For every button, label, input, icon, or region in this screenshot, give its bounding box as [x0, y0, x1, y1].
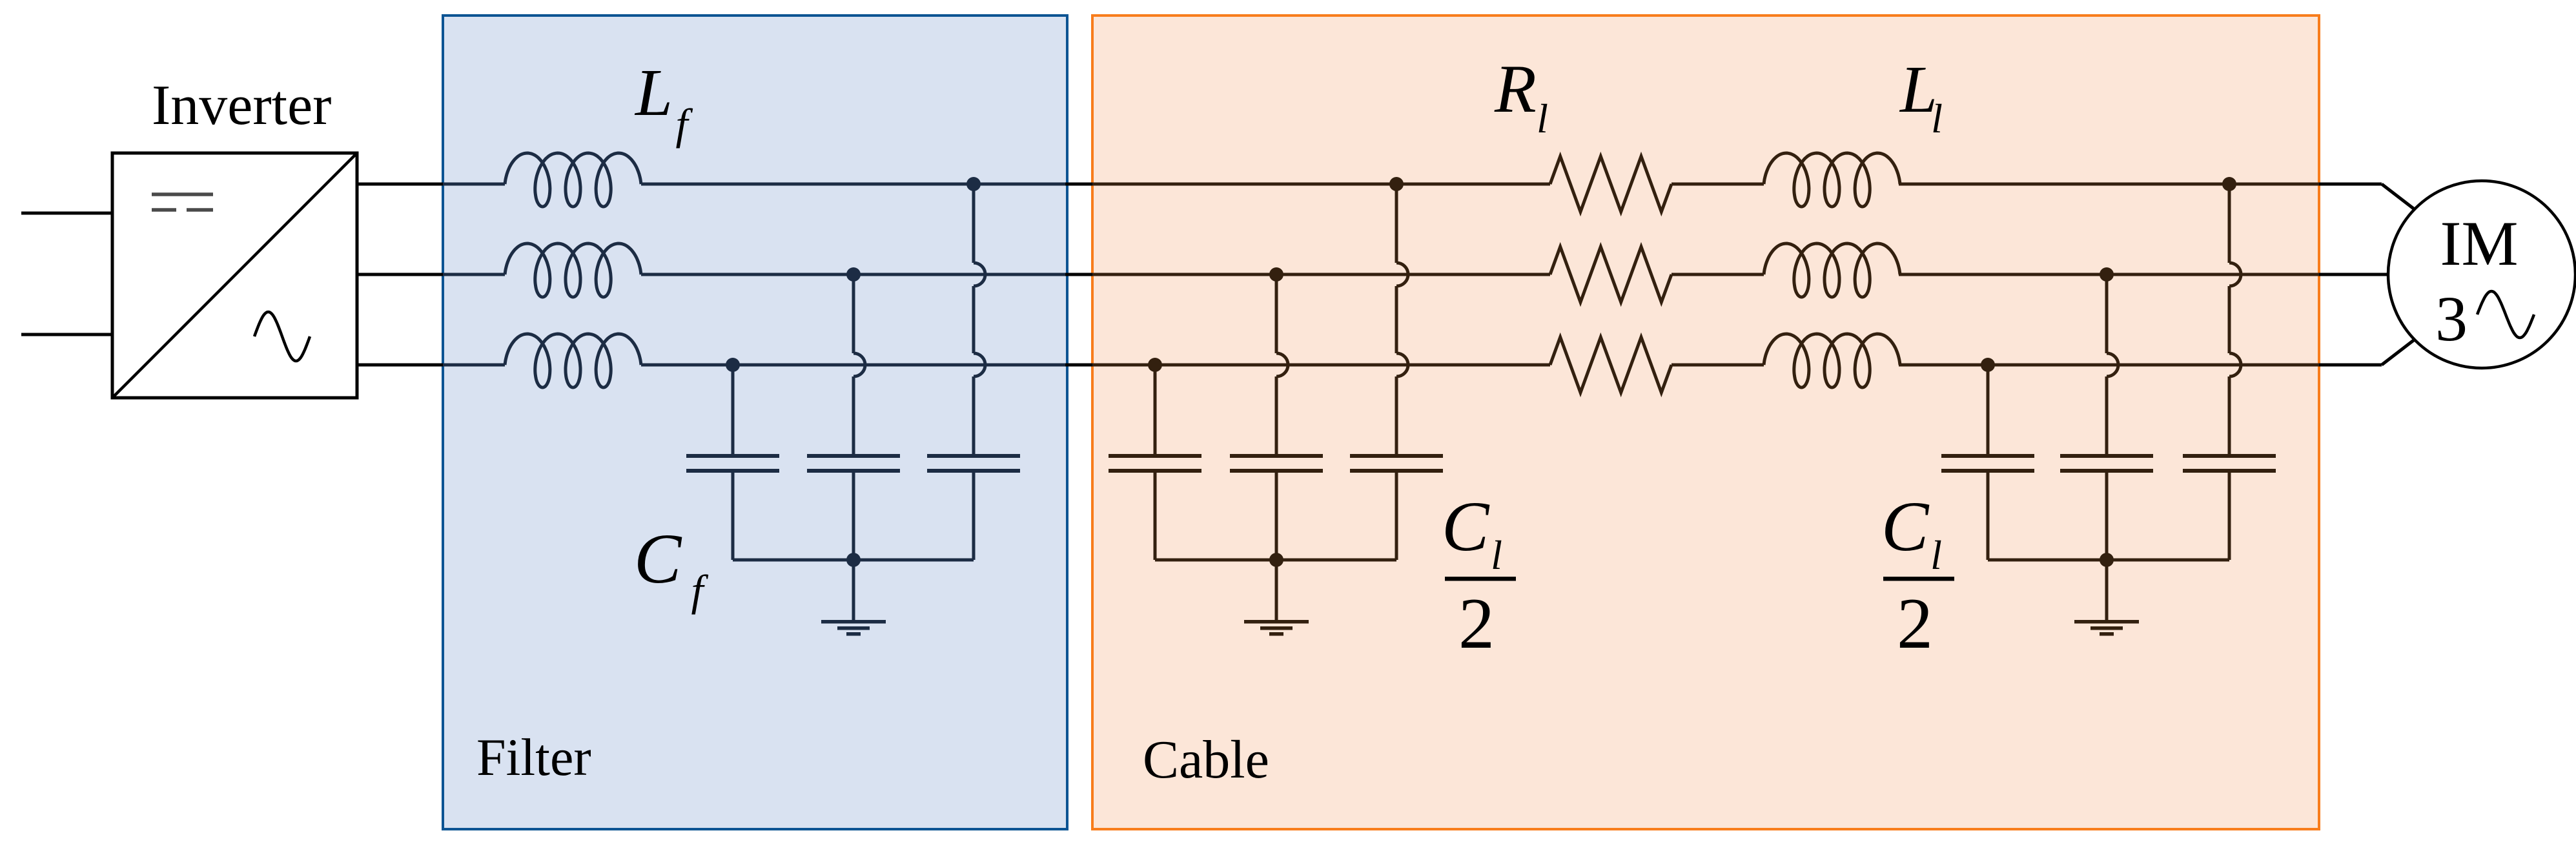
svg-text:3: 3 — [2435, 283, 2468, 355]
svg-text:R: R — [1494, 51, 1537, 127]
svg-text:Inverter: Inverter — [152, 74, 331, 137]
svg-text:C: C — [1442, 487, 1490, 566]
svg-text:l: l — [1931, 96, 1943, 141]
svg-text:2: 2 — [1897, 584, 1933, 664]
svg-text:Filter: Filter — [476, 728, 591, 787]
svg-text:Cable: Cable — [1143, 730, 1269, 790]
svg-text:IM: IM — [2440, 209, 2519, 279]
svg-text:C: C — [1881, 487, 1930, 566]
svg-text:L: L — [634, 56, 673, 130]
svg-text:l: l — [1537, 96, 1548, 141]
svg-text:l: l — [1491, 532, 1502, 578]
svg-text:l: l — [1930, 532, 1942, 578]
svg-text:2: 2 — [1458, 584, 1495, 664]
svg-text:C: C — [634, 519, 682, 598]
